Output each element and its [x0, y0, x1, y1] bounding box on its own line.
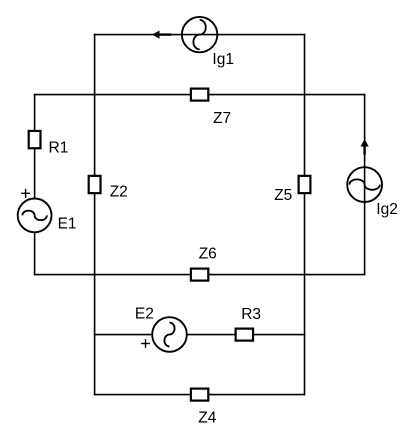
svg-text:Z2: Z2 [110, 183, 128, 200]
impedance Z5 [274, 176, 310, 204]
voltage source E2 [135, 306, 187, 352]
svg-text:E2: E2 [135, 306, 154, 323]
svg-text:Z5: Z5 [274, 187, 292, 204]
polarity plus sign of E1 [21, 192, 30, 194]
impedance Z2 [89, 176, 128, 201]
current direction arrow of Ig2 (points up) [363, 147, 365, 155]
voltage source E1 [18, 189, 77, 232]
current direction arrow of Ig1 (points left) [159, 33, 171, 35]
impedance Z7 [191, 89, 231, 128]
impedance Z4 [191, 389, 217, 427]
current source Ig1 [152, 17, 234, 68]
wire right branch [364, 95, 366, 275]
resistor R3 [236, 306, 261, 341]
svg-text:R1: R1 [49, 139, 69, 156]
svg-text:Ig2: Ig2 [376, 201, 398, 218]
svg-text:Z7: Z7 [213, 110, 231, 127]
polarity plus sign of E2 [141, 343, 150, 345]
svg-text:E1: E1 [58, 215, 77, 232]
resistor R1 [29, 131, 69, 156]
wire row5 bottom [95, 394, 305, 396]
wire row4 [95, 334, 305, 336]
svg-text:Z4: Z4 [198, 410, 216, 427]
svg-text:Z6: Z6 [199, 246, 217, 263]
wire top row [95, 34, 305, 36]
current source Ig2 [347, 139, 398, 218]
svg-text:R3: R3 [241, 306, 261, 323]
wire inner-right vertical [304, 35, 306, 395]
impedance Z6 [191, 246, 217, 281]
wire inner-left vertical [94, 35, 96, 395]
wire left branch [34, 95, 36, 275]
svg-text:Ig1: Ig1 [212, 51, 234, 68]
wire row3 [35, 274, 365, 276]
wire row2 [35, 94, 365, 96]
